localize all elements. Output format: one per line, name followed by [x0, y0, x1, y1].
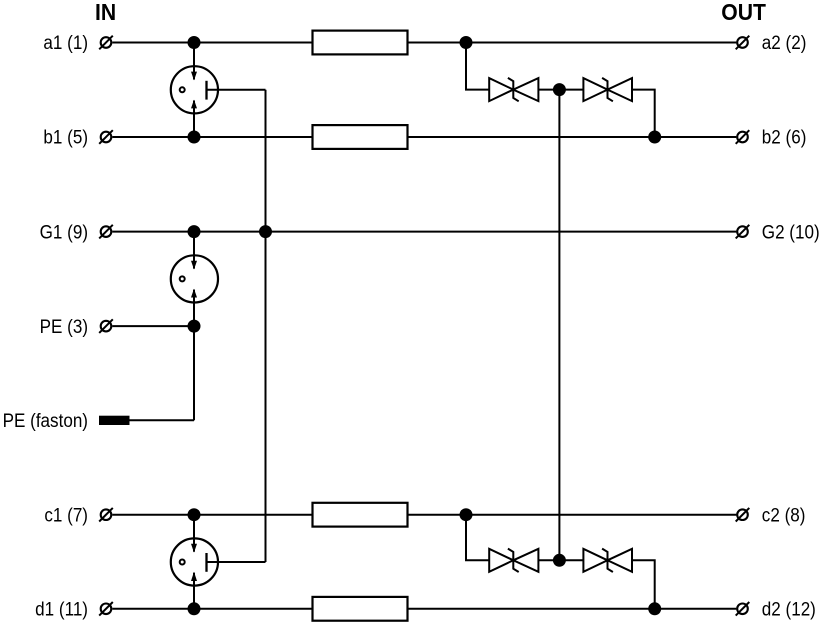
wire a right [408, 42, 737, 44]
wire bottom GDT electrode [207, 561, 266, 563]
node c1 junction [188, 508, 201, 521]
node G junction 1 [188, 225, 201, 238]
svg-text:d1 (11): d1 (11) [35, 597, 88, 619]
node a1 junction [188, 36, 201, 49]
wire bottom diode middle [538, 559, 583, 561]
terminal c1 [99, 508, 113, 522]
svg-text:b2 (6): b2 (6) [762, 126, 807, 148]
wire faston horizontal [130, 419, 195, 421]
suppressor diode bottom-right [583, 549, 632, 572]
wire top diode middle [538, 89, 583, 91]
terminal PE [99, 319, 113, 333]
terminal b2 [736, 130, 750, 144]
terminal d2 [736, 602, 750, 616]
node PE junction [188, 320, 201, 333]
wire a2 junction drop [466, 43, 489, 90]
node d1 junction [188, 602, 201, 615]
terminal G2 [736, 225, 750, 239]
faston tab [99, 416, 130, 425]
wire d right [408, 608, 737, 610]
node bottom diode center [553, 554, 566, 567]
terminal a1 [99, 36, 113, 50]
svg-text:OUT: OUT [721, 0, 766, 25]
resistor a [313, 31, 408, 55]
wire electrode bus vertical [265, 90, 267, 562]
terminal a2 [736, 36, 750, 50]
terminal G1 [99, 225, 113, 239]
svg-text:a2 (2): a2 (2) [762, 31, 807, 53]
node b2 junction [648, 131, 661, 144]
wire c right [408, 514, 737, 516]
node a2 junction [460, 36, 473, 49]
node b1 junction [188, 131, 201, 144]
node d2 junction [648, 602, 661, 615]
wire top GDT electrode [207, 89, 266, 91]
node top diode center [553, 83, 566, 96]
wire G1-G2 [112, 231, 736, 233]
svg-text:G1 (9): G1 (9) [40, 220, 88, 242]
wire top diode to b2 [632, 90, 655, 137]
resistor d [313, 597, 408, 621]
wire b1 left [112, 136, 312, 138]
svg-text:b1 (5): b1 (5) [43, 126, 88, 148]
svg-text:c1 (7): c1 (7) [44, 503, 88, 525]
suppressor diode top-right [583, 78, 632, 101]
svg-text:PE (faston): PE (faston) [3, 409, 88, 431]
suppressor diode bottom-left [489, 549, 538, 572]
wire bottom diode to d2 [632, 560, 655, 609]
wire d1 left [112, 608, 312, 610]
svg-text:PE (3): PE (3) [40, 315, 88, 337]
resistor c [313, 503, 408, 527]
wire a1 left [112, 42, 312, 44]
svg-text:IN: IN [95, 0, 116, 25]
wire faston to PE vertical [193, 326, 195, 420]
svg-text:G2 (10): G2 (10) [762, 220, 820, 242]
wire c2 junction drop [466, 515, 489, 561]
node c2 junction [460, 508, 473, 521]
gas discharge tube top (a-b) [171, 43, 218, 138]
node G junction 2 [259, 225, 272, 238]
terminal c2 [736, 508, 750, 522]
wire c1 left [112, 514, 312, 516]
terminal b1 [99, 130, 113, 144]
terminal d1 [99, 602, 113, 616]
svg-text:c2 (8): c2 (8) [762, 503, 806, 525]
wire center bus vertical [558, 90, 560, 561]
suppressor diode top-left [489, 78, 538, 101]
resistor b [313, 125, 408, 149]
wire b right [408, 136, 737, 138]
svg-text:a1 (1): a1 (1) [43, 31, 88, 53]
gas discharge tube bottom (c-d) [171, 515, 218, 609]
wire PE [112, 325, 194, 327]
svg-text:d2 (12): d2 (12) [762, 597, 816, 619]
gas discharge tube middle (G-PE) [171, 232, 218, 327]
